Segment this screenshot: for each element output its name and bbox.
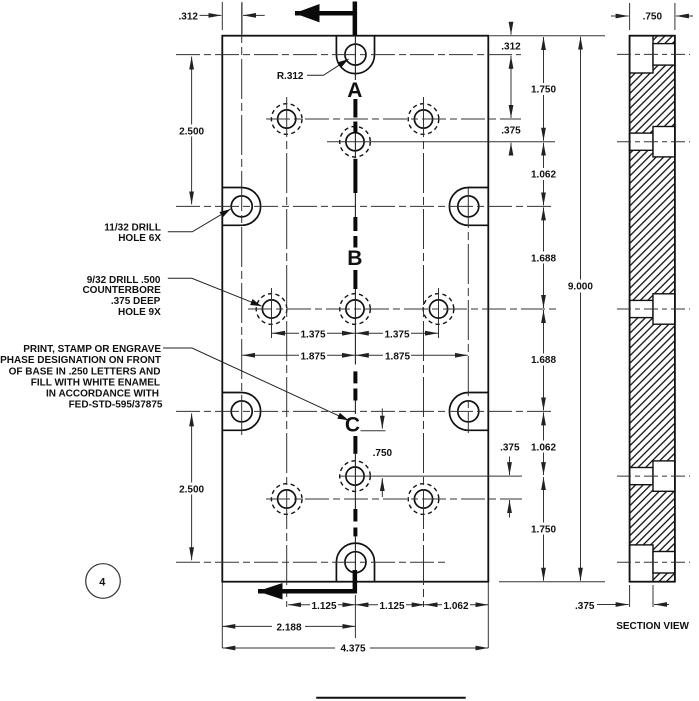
leader 9/32 drill counterbore xyxy=(82,275,261,318)
centerline row cb3 center y476.1 xyxy=(340,475,522,477)
centerline row bottom hole y562.2 xyxy=(176,561,446,563)
dim 1.375 mid left xyxy=(272,327,355,340)
boss bottom center xyxy=(336,543,374,582)
svg-text:B: B xyxy=(347,247,362,270)
svg-text:C: C xyxy=(345,414,360,437)
section cb1 drill left xyxy=(630,133,653,150)
cutting plane line thin segments xyxy=(354,36,356,570)
svg-text:.312: .312 xyxy=(179,11,199,22)
section cb3 counterbore right xyxy=(653,461,675,491)
centerline row cb3 y499 xyxy=(266,498,522,500)
svg-text:1.375: 1.375 xyxy=(300,329,325,340)
dim .375 section bottom xyxy=(575,585,669,612)
dim .375 top right xyxy=(501,126,521,153)
plate outline (front view) xyxy=(222,36,488,582)
counterbore hole row1 right xyxy=(408,104,439,135)
center lines horizontal xyxy=(176,55,557,563)
dim 1.750 top right xyxy=(528,37,559,141)
centerline mid row right hole x438.5 xyxy=(438,288,440,338)
counterbore hole row1 left xyxy=(271,104,302,135)
counterbore hole row3 center xyxy=(340,461,371,492)
dim 2.188 bottom xyxy=(222,620,355,633)
centerline row mounting1 y206.4 xyxy=(176,205,554,207)
svg-text:.750: .750 xyxy=(373,448,393,459)
dim 4.375 bottom xyxy=(222,642,488,655)
svg-text:COUNTERBORE: COUNTERBORE xyxy=(82,285,161,296)
svg-text:2.500: 2.500 xyxy=(179,127,204,138)
centerline row mounting2 y411.4 xyxy=(176,410,554,412)
dim .312 top-left xyxy=(179,2,265,34)
dim 1.875 mid left xyxy=(242,349,355,362)
dim 1.688 upper right xyxy=(528,207,559,308)
svg-text:1.875: 1.875 xyxy=(385,351,410,362)
letter A xyxy=(345,79,365,102)
svg-text:PHASE DESIGNATION ON FRONT: PHASE DESIGNATION ON FRONT xyxy=(0,355,161,366)
boss top center xyxy=(336,36,374,74)
dim 1.750 bottom right xyxy=(528,477,559,581)
counterbore hole row2 left xyxy=(256,294,287,325)
section arrow bottom xyxy=(258,570,358,600)
mounting hole left lower xyxy=(231,401,252,422)
svg-text:.375: .375 xyxy=(575,601,595,612)
svg-text:1.062: 1.062 xyxy=(531,170,556,181)
svg-text:.750: .750 xyxy=(643,12,663,23)
boss left lower xyxy=(222,392,260,430)
boss left upper xyxy=(222,188,260,226)
section cb2 drill left xyxy=(630,300,653,317)
svg-text:1.125: 1.125 xyxy=(311,601,336,612)
dim 2.500 upper left xyxy=(176,57,207,205)
svg-text:1.125: 1.125 xyxy=(379,601,404,612)
dim 1.062 top right xyxy=(528,143,559,206)
leader print stamp note xyxy=(0,344,348,420)
svg-text:1.750: 1.750 xyxy=(531,85,556,96)
boss right upper xyxy=(449,188,488,226)
boss right lower xyxy=(449,392,488,430)
svg-text:9.000: 9.000 xyxy=(568,281,593,292)
svg-text:4.375: 4.375 xyxy=(340,644,365,655)
mounting hole left upper xyxy=(231,196,252,217)
svg-text:FILL WITH WHITE ENAMEL: FILL WITH WHITE ENAMEL xyxy=(31,378,160,389)
mounting hole right upper xyxy=(458,196,479,217)
svg-text:2.500: 2.500 xyxy=(179,484,204,495)
centerline col left mounting x241.7 xyxy=(241,3,243,435)
cutting plane line thick dashes xyxy=(353,99,357,536)
svg-text:1.375: 1.375 xyxy=(384,329,409,340)
svg-text:1.688: 1.688 xyxy=(531,355,556,366)
counterbore hole row2 center xyxy=(340,294,371,325)
centerline row middle y309 xyxy=(248,308,557,310)
dim 1.125 bottom center xyxy=(355,599,424,612)
svg-text:1.688: 1.688 xyxy=(531,253,556,264)
mounting hole right lower xyxy=(458,401,479,422)
svg-text:HOLE 9X: HOLE 9X xyxy=(118,307,161,318)
counterbore hole row3 left xyxy=(271,484,302,515)
dim 2.500 lower left xyxy=(176,413,207,560)
dim .750 bottom center xyxy=(361,408,393,497)
centerline col right mounting x468.3 xyxy=(467,188,469,433)
centerline col cb left x286.7 xyxy=(286,97,288,607)
counterbore hole row1 center xyxy=(340,126,371,157)
svg-text:A: A xyxy=(347,79,362,102)
dim 1.688 lower right xyxy=(528,310,559,410)
section hole top xyxy=(653,44,675,66)
letter B xyxy=(345,247,365,270)
counterbore hole row2 right xyxy=(423,294,454,325)
svg-text:1.062: 1.062 xyxy=(443,601,468,612)
dim .312 right xyxy=(501,24,521,118)
svg-text:.375 DEEP: .375 DEEP xyxy=(111,296,161,307)
svg-text:R.312: R.312 xyxy=(277,71,304,82)
centerline row cb1 center y141.7 xyxy=(327,141,555,143)
letter C xyxy=(343,414,363,437)
svg-text:.375: .375 xyxy=(501,126,521,137)
section outline xyxy=(630,36,675,582)
bottom border line xyxy=(316,697,466,699)
svg-text:1.750: 1.750 xyxy=(531,525,556,536)
section arrow top xyxy=(295,2,358,36)
dim 1.062 bottom right xyxy=(528,412,559,475)
svg-text:1.875: 1.875 xyxy=(300,351,325,362)
centerline row top holes y54.6 xyxy=(176,54,521,56)
svg-text:2.188: 2.188 xyxy=(276,622,301,633)
dim .375 bottom right xyxy=(500,443,520,518)
counterbore hole row3 right xyxy=(408,484,439,515)
svg-text:1.062: 1.062 xyxy=(531,443,556,454)
centerline row cb1 y119 xyxy=(266,118,521,120)
balloon 4 xyxy=(86,564,121,599)
section hole bottom xyxy=(653,552,675,574)
svg-text:PRINT, STAMP OR ENGRAVE: PRINT, STAMP OR ENGRAVE xyxy=(23,344,161,355)
svg-text:FED-STD-595/37875: FED-STD-595/37875 xyxy=(69,399,163,410)
centerline mid row left hole x271.5 xyxy=(271,288,273,338)
leader 11/32 drill xyxy=(104,209,230,244)
svg-text:SECTION VIEW: SECTION VIEW xyxy=(616,621,689,632)
dim 1.875 mid right xyxy=(356,349,468,362)
dim 9.000 right xyxy=(564,37,597,581)
extension line top edge right xyxy=(490,35,605,37)
dim 1.125 bottom left xyxy=(288,599,355,612)
dim 1.062 bottom xyxy=(425,599,489,612)
svg-text:IN ACCORDANCE WITH: IN ACCORDANCE WITH xyxy=(46,388,159,399)
section view body hatched xyxy=(630,36,675,582)
svg-text:4: 4 xyxy=(99,576,106,588)
section cb3 drill left xyxy=(630,468,653,485)
mounting hole top center xyxy=(345,44,366,65)
dim .750 section top xyxy=(611,3,693,30)
section notch top-left boss xyxy=(630,36,653,73)
dim 1.375 mid right xyxy=(356,327,438,340)
svg-text:.375: .375 xyxy=(500,443,520,454)
section notch bottom-left boss xyxy=(630,545,653,582)
extension line left edge below plate x222.3 xyxy=(221,582,223,648)
svg-text:HOLE 6X: HOLE 6X xyxy=(118,233,161,244)
extension line center below plate x355.4 xyxy=(354,595,356,638)
svg-text:.312: .312 xyxy=(501,42,521,53)
center lines vertical xyxy=(222,3,488,648)
mounting hole bottom center xyxy=(345,552,366,573)
section cb2 counterbore right xyxy=(653,294,675,324)
svg-text:OF BASE IN .250 LETTERS AND: OF BASE IN .250 LETTERS AND xyxy=(9,367,161,378)
centerline col cb right x423.5 xyxy=(423,97,425,607)
leader R.312 xyxy=(277,59,349,82)
extension line bottom edge right xyxy=(499,581,605,583)
section centerlines xyxy=(617,54,690,562)
extension line right edge below plate x488.3 xyxy=(487,582,489,648)
section cb1 counterbore right xyxy=(653,127,675,157)
